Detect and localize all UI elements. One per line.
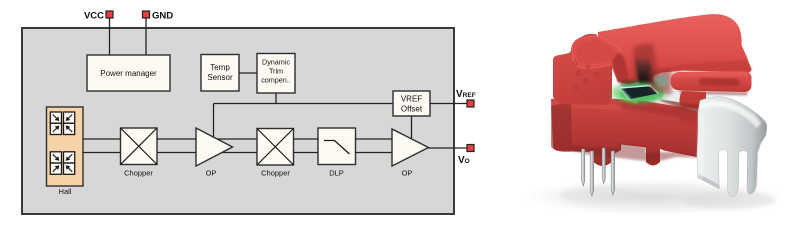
strap left tine bottom edge fold [698, 174, 720, 190]
dark core gap wedge [635, 58, 654, 85]
left metal pins [582, 148, 615, 196]
IC outer boundary box [22, 28, 454, 214]
svg-text:VO: VO [458, 155, 470, 166]
metal lip under collar bar [659, 92, 684, 104]
svg-text:OP: OP [402, 169, 413, 178]
teal glint left of collar bar [654, 75, 668, 87]
red slab (top block) [598, 14, 751, 84]
dark shadow right of chip [660, 92, 712, 116]
svg-text:DLP: DLP [329, 169, 344, 178]
red collar bar [671, 72, 752, 93]
strap hook top rim highlight [700, 101, 761, 128]
svg-text:Offset: Offset [401, 105, 423, 114]
op-amp OP1 [196, 128, 233, 178]
svg-text:Dynamic: Dynamic [262, 58, 290, 67]
svg-text:Power manager: Power manager [100, 69, 157, 78]
wire OP1 to Chopper2 [210, 138, 257, 140]
wire feedback line OP1 to VREF Offset [214, 103, 394, 105]
block VREF Offset [393, 91, 430, 116]
svg-text:GND: GND [152, 11, 173, 22]
wire OP1 top vertical [213, 104, 215, 141]
base top face light band [553, 101, 680, 121]
pin VREF [456, 89, 476, 107]
wire DLP to OP2 [356, 138, 398, 140]
red base block [551, 97, 714, 166]
collar bar top highlight [672, 72, 751, 78]
embossed date-code markings [573, 62, 598, 90]
metal strap: hook + band + fork [697, 97, 767, 197]
shadow under overhang [620, 80, 658, 89]
floor shadow [520, 178, 784, 216]
pin GND [143, 11, 174, 57]
wire Hall to Chopper1 (differential pair) [83, 138, 121, 140]
wire Chopper2 to DLP [294, 138, 319, 140]
svg-text:compen..: compen.. [261, 76, 291, 85]
pin Vo [458, 145, 474, 167]
dark shadow cone above chip [634, 43, 657, 80]
block Temp Sensor [201, 55, 239, 92]
block Chopper 1 [121, 128, 158, 178]
collar groove [699, 78, 740, 86]
slab front lower shading [657, 60, 751, 73]
left block boss recess [577, 40, 615, 64]
wire OP2 to Vo pin [429, 147, 468, 149]
block DLP low-pass filter [318, 128, 356, 178]
dark red shadow left of collar bar [648, 70, 672, 94]
block Chopper 2 [257, 129, 294, 178]
wire VREF Offset to VREF pin [430, 103, 467, 105]
wire Temp Sensor to Dynamic Trim [239, 72, 257, 74]
strap band left bright region [697, 112, 705, 179]
base left face shading [551, 101, 572, 151]
pin VCC [84, 11, 113, 57]
base bottom edge darkening [572, 143, 707, 161]
svg-text:Temp: Temp [210, 63, 230, 72]
svg-text:Chopper: Chopper [124, 169, 153, 178]
block Dynamic Trim compensation [257, 54, 295, 94]
left block of red housing [553, 34, 616, 105]
strap right side shading [750, 137, 762, 194]
op-amp OP2 [392, 129, 429, 178]
svg-text:VREF: VREF [456, 89, 476, 100]
red jaw tab below collar bar [679, 91, 706, 109]
svg-text:Sensor: Sensor [207, 73, 233, 82]
shadow under collar bar [680, 91, 748, 96]
left block boss top face [572, 36, 621, 68]
sensor chip [620, 86, 658, 100]
block Power manager [87, 55, 170, 91]
svg-text:VREF: VREF [401, 95, 422, 104]
svg-text:Trim: Trim [269, 67, 283, 76]
step face right of boss [612, 53, 630, 84]
green glow on base top face [606, 79, 672, 107]
svg-text:VCC: VCC [84, 11, 104, 22]
base top face shadow band [620, 103, 714, 127]
wire VREF Offset down to OP2 [411, 116, 413, 142]
svg-text:OP: OP [206, 169, 217, 178]
svg-text:Chopper: Chopper [261, 169, 290, 178]
Hall element [47, 107, 84, 196]
wire Chopper1 to OP1 [157, 138, 200, 140]
wire Dynamic Trim down to feedback line [275, 93, 277, 104]
svg-text:Hall: Hall [59, 187, 72, 196]
